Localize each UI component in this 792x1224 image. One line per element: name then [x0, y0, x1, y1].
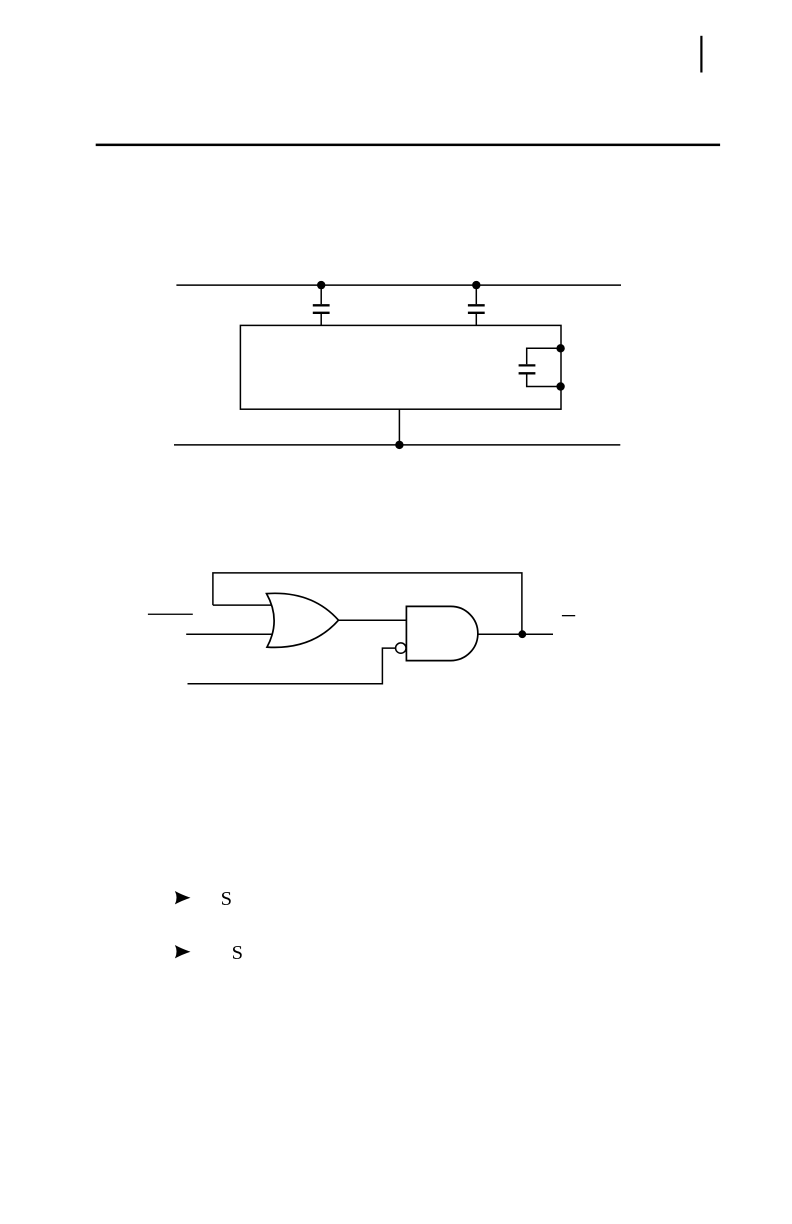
svg-text:S: S	[221, 888, 232, 910]
svg-text:S: S	[232, 942, 243, 964]
